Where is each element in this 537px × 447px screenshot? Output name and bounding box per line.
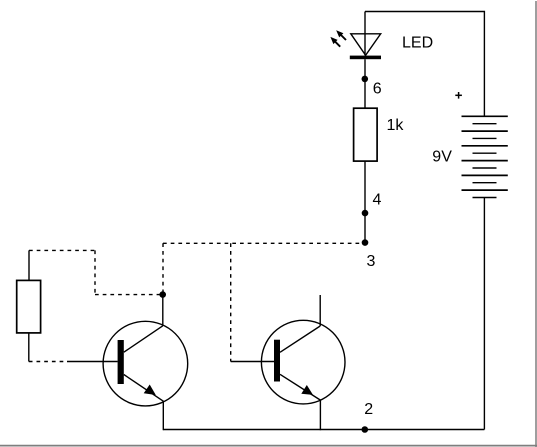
- frame right border: [535, 1, 537, 447]
- wire R1 top lead: [28, 250, 30, 280]
- LED D1 cathode bar: [350, 56, 381, 60]
- LED D1 triangle: [351, 34, 381, 56]
- wire Q1 emitter down: [162, 401, 164, 430]
- wire cathode to resistor R2 top: [364, 59, 366, 108]
- node Q1 collector junction dot: [159, 291, 166, 298]
- transistor Q1 base bar: [118, 340, 124, 384]
- wire Q2 collector stub up: [319, 295, 321, 326]
- transistor Q1 circle: [103, 321, 188, 406]
- svg-text:1k: 1k: [387, 117, 405, 134]
- frame bottom border: [0, 445, 537, 447]
- wire R1 bottom lead: [28, 333, 30, 362]
- svg-text:LED: LED: [402, 35, 433, 52]
- wire top rail from LED to battery: [365, 12, 484, 117]
- transistor Q2 emitter arrow: [301, 385, 313, 395]
- wire LED anode drop: [364, 12, 366, 56]
- LED light arrow upper: [336, 30, 346, 40]
- svg-text:2: 2: [364, 401, 373, 418]
- transistor Q2 base bar: [274, 340, 280, 382]
- svg-text:6: 6: [373, 81, 382, 98]
- wire resistor R2 bottom to node 3: [364, 161, 366, 243]
- LED light arrow lower: [330, 37, 340, 47]
- transistor Q1 emitter arrow: [144, 385, 156, 396]
- svg-text:3: 3: [367, 253, 376, 270]
- node 2 junction dot: [362, 426, 369, 433]
- wire dashed to Q1 collector node: [95, 294, 163, 296]
- resistor R1 body: [17, 280, 41, 333]
- wire Q2 base lead: [231, 361, 274, 363]
- node 3 junction dot: [362, 239, 369, 246]
- wire dashed R1 bottom to Q1 base: [29, 361, 67, 363]
- transistor Q2 circle: [261, 320, 345, 404]
- transistor Q2 collector diagonal: [280, 326, 320, 352]
- transistor Q2 emitter diagonal: [280, 374, 320, 400]
- wire dashed vertical at Q1 collector up: [162, 243, 164, 294]
- wire dashed corner down: [94, 250, 96, 294]
- wire dashed horizontal to node 3: [163, 242, 365, 244]
- resistor R2 1k body: [354, 108, 378, 161]
- node 6 junction dot: [362, 76, 369, 83]
- wire Q1 base lead: [67, 361, 118, 363]
- svg-text:9V: 9V: [432, 149, 452, 166]
- transistor Q1 emitter diagonal: [124, 375, 164, 402]
- label + battery positive: [455, 92, 462, 99]
- transistor Q1 collector diagonal: [124, 326, 163, 352]
- svg-text:4: 4: [373, 192, 382, 209]
- wire battery negative down: [483, 198, 485, 430]
- wire Q1 collector up to node: [162, 295, 164, 326]
- wire dashed R1 top to corner: [29, 249, 95, 251]
- node 4 junction dot: [362, 210, 369, 217]
- battery BT1 9V plates: [462, 116, 508, 197]
- wire bottom rail: [163, 429, 484, 431]
- wire dashed vertical to Q2 base: [230, 243, 232, 361]
- wire Q2 emitter down: [319, 400, 321, 430]
